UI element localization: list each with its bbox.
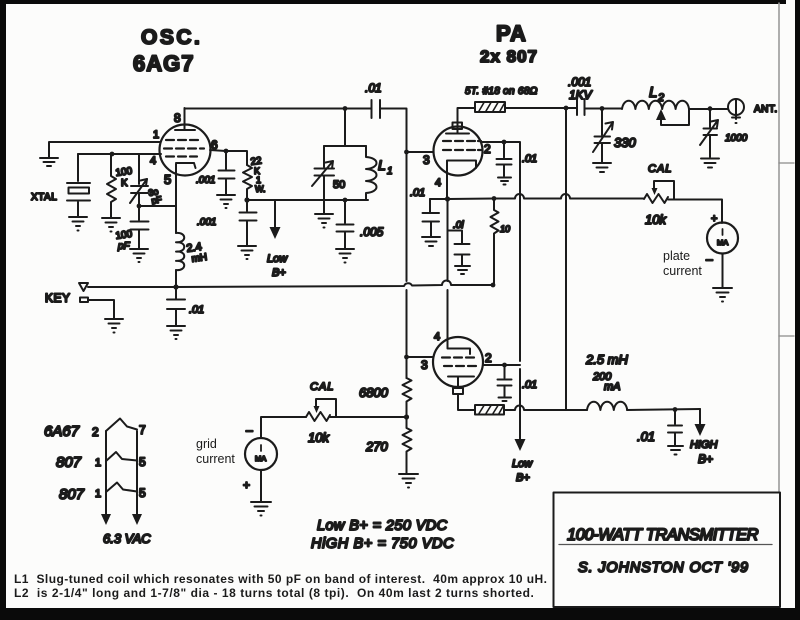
ground at grid return bbox=[40, 158, 58, 166]
tube V2 grid dashes row2 bbox=[443, 149, 481, 151]
resistor R 100K bbox=[107, 154, 116, 217]
wire V1 plate to top bus bbox=[185, 108, 372, 110]
svg-text:.0l: .0l bbox=[453, 220, 464, 231]
ground below key .01 bbox=[167, 326, 185, 339]
svg-text:–: – bbox=[706, 252, 713, 266]
junction dot 1000 cap bbox=[708, 106, 713, 111]
svg-text:S. JOHNSTON OCT '99: S. JOHNSTON OCT '99 bbox=[578, 560, 749, 576]
svg-text:CAL: CAL bbox=[648, 163, 672, 175]
wire grid meter to ground bbox=[260, 470, 262, 501]
tube V1 grid dashes row 3 bbox=[166, 155, 197, 157]
svg-text:MA: MA bbox=[255, 454, 266, 463]
tube V3 grid dashes row2 bbox=[444, 365, 476, 367]
ground below tank left bbox=[315, 200, 333, 228]
wire PA grid line down bbox=[406, 152, 408, 357]
meter M1 needle I MA bbox=[722, 229, 724, 235]
svg-text:KEY: KEY bbox=[45, 291, 71, 305]
potentiometer CAL (grid) wiper arrow bbox=[314, 406, 320, 413]
svg-text:5: 5 bbox=[139, 455, 146, 469]
svg-text:1: 1 bbox=[95, 457, 101, 469]
svg-text:Low: Low bbox=[512, 458, 533, 470]
svg-text:PA: PA bbox=[496, 21, 527, 46]
filament heater 807b bbox=[106, 483, 137, 493]
svg-text:.01: .01 bbox=[522, 153, 537, 165]
bottom black border bar bbox=[0, 608, 800, 620]
svg-text:2: 2 bbox=[657, 92, 664, 104]
tube V1 cathode bbox=[176, 163, 196, 168]
ground below .005 bbox=[336, 249, 354, 263]
svg-text:Low: Low bbox=[267, 253, 288, 265]
svg-text:5: 5 bbox=[164, 172, 171, 187]
crystal XTAL bbox=[67, 154, 90, 217]
tube V1 grid dashes row 2 bbox=[164, 147, 204, 149]
svg-text:.01: .01 bbox=[365, 81, 382, 95]
junction dot .005 bbox=[343, 198, 348, 203]
svg-text:mH: mH bbox=[191, 252, 208, 265]
svg-text:mA: mA bbox=[604, 381, 621, 393]
svg-text:.01: .01 bbox=[522, 379, 537, 391]
wire tank top bbox=[324, 145, 366, 147]
variable capacitor 1000 arrow bbox=[700, 120, 718, 145]
svg-text:10: 10 bbox=[500, 224, 510, 234]
wire sleeve to ground bbox=[88, 300, 114, 318]
ground below .001 no2 bbox=[238, 246, 256, 259]
svg-text:MA: MA bbox=[717, 238, 728, 247]
variable capacitor 330 arrow bbox=[593, 122, 613, 152]
filament arrow left bbox=[101, 514, 111, 525]
junction dot key line bbox=[173, 284, 178, 289]
svg-text:7: 7 bbox=[139, 423, 146, 437]
svg-text:–: – bbox=[246, 423, 253, 437]
ground below HV bypass bbox=[668, 446, 683, 455]
svg-text:W.: W. bbox=[255, 184, 266, 194]
svg-text:.01: .01 bbox=[637, 429, 655, 444]
junction dot 22K bottom bbox=[244, 197, 249, 202]
tube V2 grid dashes row1 bbox=[443, 140, 481, 142]
capacitor .01 screen no1 bbox=[497, 142, 512, 176]
svg-text:3: 3 bbox=[423, 153, 430, 167]
potentiometer CAL (plate) wiper arrow bbox=[652, 188, 658, 195]
right margin tick y336 bbox=[779, 335, 794, 337]
ground below 100K bbox=[102, 218, 120, 232]
tube V1 plate bar bbox=[175, 108, 195, 130]
resistor 22K bbox=[243, 165, 252, 200]
svg-text:B+: B+ bbox=[272, 267, 286, 279]
potentiometer CAL 10k (grid) zigzag bbox=[306, 412, 330, 421]
ground below 270 bbox=[399, 474, 418, 488]
ground below key sleeve bbox=[105, 319, 123, 333]
svg-text:1: 1 bbox=[387, 166, 393, 177]
svg-text:5T. #18 on 68Ω: 5T. #18 on 68Ω bbox=[465, 86, 538, 97]
svg-text:Low B+ = 250 VDC: Low B+ = 250 VDC bbox=[317, 518, 448, 534]
svg-text:1000: 1000 bbox=[725, 133, 748, 144]
svg-text:L: L bbox=[378, 157, 386, 173]
ground below cathode cap no2 bbox=[455, 266, 470, 274]
junction dot V3 pin3 bbox=[404, 355, 409, 360]
wire plate meter to ground bbox=[722, 254, 724, 288]
meter M2 needle I MA bbox=[260, 445, 262, 451]
tube V2 plate top cap bbox=[453, 123, 463, 130]
ground below 1000 bbox=[701, 159, 719, 168]
junction dot PA grid line / V2 pin3 bbox=[404, 150, 409, 155]
svg-text:L: L bbox=[649, 84, 657, 101]
svg-text:current: current bbox=[663, 264, 702, 278]
svg-text:1KV: 1KV bbox=[569, 88, 593, 102]
wire cathode metering bus bbox=[430, 194, 644, 199]
svg-text:B+: B+ bbox=[516, 472, 530, 484]
filament heater 807a bbox=[106, 452, 137, 461]
tube V1 6AG7 envelope bbox=[160, 125, 211, 176]
svg-text:plate: plate bbox=[663, 249, 690, 263]
wire V2 pin2 screen bbox=[482, 142, 520, 440]
wire key line bbox=[88, 281, 493, 288]
junction dot cathode bus / V2 cathode bbox=[445, 196, 450, 201]
svg-text:6.3 VAC: 6.3 VAC bbox=[103, 531, 151, 546]
wire grid pin1 to ground bbox=[49, 142, 160, 157]
potentiometer CAL (grid) wiper frame bbox=[316, 399, 336, 417]
resistor 6800 bbox=[403, 378, 412, 417]
svg-text:+: + bbox=[243, 478, 250, 492]
svg-text:100-WATT TRANSMITTER: 100-WATT TRANSMITTER bbox=[567, 526, 759, 544]
svg-text:.005: .005 bbox=[360, 225, 384, 239]
svg-text:4: 4 bbox=[150, 155, 156, 167]
right thin vertical rule bbox=[778, 3, 780, 492]
wire suppressor to HV node bbox=[505, 107, 577, 109]
capacitor .01 coupling (series) bbox=[372, 100, 381, 118]
svg-text:B+: B+ bbox=[698, 452, 713, 466]
svg-text:K: K bbox=[121, 178, 128, 189]
parasitic suppressor Z1 5T #18 on 68ohm bbox=[475, 102, 505, 112]
wire tank bottom bus bbox=[247, 199, 368, 201]
svg-text:2: 2 bbox=[92, 425, 99, 439]
right margin tick y163 bbox=[779, 162, 794, 164]
title underline bbox=[559, 544, 772, 546]
svg-text:4: 4 bbox=[434, 331, 440, 343]
inductor 2.4 mH bbox=[176, 233, 184, 270]
ground below cathode cap no1 bbox=[422, 237, 440, 246]
wire grid line to 6800 bbox=[406, 357, 408, 378]
trimmer arrow bbox=[130, 179, 147, 203]
svg-text:2: 2 bbox=[485, 351, 492, 365]
ground below 100 pF bbox=[130, 249, 148, 262]
junction dot .001 no1 bbox=[224, 149, 229, 154]
svg-text:HiGH B+ = 750 VDC: HiGH B+ = 750 VDC bbox=[311, 536, 454, 552]
capacitor .01 HV bypass bbox=[668, 410, 682, 446]
wire L2 to antenna node bbox=[689, 108, 728, 110]
svg-text:grid: grid bbox=[196, 437, 217, 451]
ground below 330 bbox=[593, 163, 611, 172]
L2 tap bbox=[661, 109, 689, 125]
svg-text:.001: .001 bbox=[568, 75, 591, 89]
wire bias node to grid meter bbox=[330, 416, 407, 418]
wire V2 cathode down bbox=[446, 169, 448, 199]
meter M2 grid current bbox=[245, 438, 277, 470]
svg-text:XTAL: XTAL bbox=[31, 192, 57, 203]
tube V1 grid dashes row 1 bbox=[166, 139, 198, 141]
capacitor 100 pF bbox=[131, 207, 149, 248]
junction key line to 10 ohm bbox=[491, 283, 496, 288]
svg-text:6A67: 6A67 bbox=[44, 423, 80, 440]
junction dot tank drop bbox=[343, 106, 348, 111]
capacitor .001 1KV (series) bbox=[577, 99, 585, 115]
tube V3 cathode (top) bbox=[448, 337, 471, 354]
capacitor .005 bbox=[337, 200, 354, 248]
top black border bar bbox=[0, 0, 786, 4]
filament rail right bbox=[136, 431, 138, 515]
inductor L2 bbox=[622, 101, 689, 109]
variable capacitor 330 bbox=[595, 109, 611, 163]
wire pin4 bus bbox=[78, 153, 161, 155]
HIGH B+ feed arrow bbox=[699, 409, 701, 425]
svg-text:ANT.: ANT. bbox=[754, 104, 778, 115]
svg-text:.01: .01 bbox=[410, 187, 425, 199]
resistor 270 bbox=[403, 417, 412, 473]
ground below plate meter bbox=[713, 288, 732, 302]
junction dot .01 HV bypass bbox=[673, 407, 678, 412]
capacitor .01 cathode no2 bbox=[448, 231, 470, 266]
wire choke to HIGH B+ bbox=[627, 409, 700, 410]
title box bbox=[554, 493, 781, 608]
LOW B+ feed arrow (osc) bbox=[274, 200, 276, 228]
svg-text:50: 50 bbox=[333, 179, 345, 191]
wire cap to L2 bbox=[585, 108, 623, 110]
wire V3 pin3 bbox=[407, 356, 434, 358]
junction dot bias node bbox=[404, 414, 409, 419]
filament rail left bbox=[105, 431, 107, 515]
inductor L1 bbox=[366, 146, 377, 200]
wire cathode down bbox=[175, 164, 177, 233]
tube V2 plate bar bbox=[446, 123, 469, 134]
junction dot 330 cap bbox=[600, 106, 605, 111]
tube V2 cathode bbox=[447, 161, 476, 170]
junction dot screen bypass no2 bbox=[502, 363, 507, 368]
capacitor .01 cathode no1 bbox=[423, 199, 440, 236]
capacitor .01 at key junction bbox=[167, 287, 185, 325]
svg-text:6800: 6800 bbox=[359, 385, 389, 400]
wire tank drop bbox=[344, 109, 346, 147]
svg-text:L1 Slug-tuned coil which reso: L1 Slug-tuned coil which resonates with … bbox=[14, 572, 547, 586]
tube V3 plate cap (bottom) bbox=[453, 388, 463, 394]
svg-text:.001: .001 bbox=[197, 217, 216, 228]
ground below .001 no1 bbox=[217, 195, 235, 208]
meter M1 plate current bbox=[707, 223, 738, 254]
svg-text:4: 4 bbox=[435, 177, 441, 189]
svg-text:10k: 10k bbox=[308, 430, 330, 445]
wire HV riser bbox=[565, 108, 567, 410]
tube V3 grid dashes row1 bbox=[442, 356, 474, 358]
svg-text:HIGH: HIGH bbox=[690, 439, 718, 451]
svg-text:10k: 10k bbox=[645, 212, 667, 227]
ground below XTAL bbox=[69, 217, 87, 231]
svg-text:1: 1 bbox=[153, 129, 159, 141]
junction dot HV riser bbox=[564, 106, 569, 111]
variable capacitor 1000 bbox=[704, 109, 718, 157]
KEY jack tip contact triangle bbox=[79, 283, 88, 291]
ground below screen cap no2 bbox=[499, 398, 512, 402]
inductor RFC 2.5mH bbox=[587, 402, 627, 410]
svg-text:current: current bbox=[196, 452, 235, 466]
capacitor .001 no1 bbox=[219, 151, 235, 194]
svg-text:CAL: CAL bbox=[310, 381, 334, 393]
tube V3 plate bar bbox=[448, 377, 474, 389]
svg-text:L2 is 2-1/4" long and 1-7/8": L2 is 2-1/4" long and 1-7/8" dia - 18 tu… bbox=[14, 586, 534, 600]
potentiometer CAL (plate) wiper frame bbox=[654, 181, 674, 199]
wire V2 pin3 bbox=[407, 151, 434, 153]
tube V3 807 lower envelope bbox=[433, 337, 483, 387]
wire 2.4mH to key line bbox=[175, 270, 177, 287]
svg-text:pF: pF bbox=[117, 241, 131, 252]
svg-text:807: 807 bbox=[56, 454, 82, 471]
tube V2 807 upper envelope bbox=[434, 127, 483, 176]
svg-text:6AG7: 6AG7 bbox=[133, 51, 194, 76]
svg-text:1: 1 bbox=[95, 488, 101, 500]
svg-text:807: 807 bbox=[59, 486, 85, 503]
filament arrow right bbox=[132, 514, 142, 525]
svg-text:OSC.: OSC. bbox=[141, 26, 202, 49]
wire pot to plate meter bbox=[668, 200, 722, 224]
svg-text:5: 5 bbox=[139, 486, 146, 500]
potentiometer CAL 10k (plate) zigzag bbox=[644, 194, 668, 203]
svg-text:3: 3 bbox=[421, 358, 428, 372]
trimmer capacitor 3-30 pF leads bbox=[131, 154, 148, 206]
LOW B+ feed arrow (screen) bbox=[515, 439, 526, 451]
capacitor .001 no2 bbox=[240, 200, 257, 245]
antenna jack stem bbox=[732, 99, 740, 123]
svg-text:2: 2 bbox=[484, 142, 491, 156]
wire HV node to choke bbox=[566, 409, 587, 411]
svg-text:2.5 mH: 2.5 mH bbox=[585, 352, 629, 367]
wire suppressor2 to HV node bbox=[504, 406, 566, 411]
wire V3 plate cap to suppressor bbox=[458, 394, 475, 410]
svg-text:8: 8 bbox=[174, 111, 181, 125]
KEY jack sleeve contact bbox=[80, 298, 88, 303]
wire V3 pin2 screen bbox=[483, 364, 520, 366]
junction dot 10 ohm top bbox=[492, 196, 497, 201]
junction dot pin4/100K bbox=[110, 152, 115, 157]
left black border bar bbox=[0, 0, 6, 620]
filament heater 6AG7 bbox=[106, 419, 137, 432]
variable capacitor 50 arrow bbox=[312, 161, 333, 186]
wire trimmer junction to cathode line bbox=[139, 205, 176, 207]
wire pot to grid meter bbox=[261, 417, 306, 438]
variable capacitor 50 leads/plates bbox=[315, 146, 335, 200]
wire V2 cathode to V3 grid feed bbox=[447, 199, 449, 337]
wire V2 plate cap up to suppressor bbox=[458, 108, 476, 122]
wire coupling cap to PA grid line bbox=[380, 109, 407, 153]
svg-text:2x 807: 2x 807 bbox=[480, 47, 538, 66]
svg-text:.01: .01 bbox=[189, 304, 204, 316]
svg-text:270: 270 bbox=[365, 439, 388, 454]
ground below screen cap no1 bbox=[498, 178, 511, 185]
parasitic suppressor Z2 bbox=[475, 405, 504, 415]
right edge black strip bbox=[795, 0, 800, 620]
ground below grid meter bbox=[251, 502, 271, 516]
svg-text:330: 330 bbox=[614, 135, 636, 150]
svg-text:.001: .001 bbox=[196, 175, 215, 186]
wire V1 pin6 to 22K bbox=[210, 150, 247, 165]
junction dot trimmer/cathode wire bbox=[137, 204, 142, 209]
capacitor .01 screen no2 bbox=[498, 365, 512, 397]
resistor 10 ohm bbox=[491, 199, 499, 286]
antenna jack circle bbox=[728, 99, 744, 115]
junction dot screen bypass no1 bbox=[502, 140, 507, 145]
